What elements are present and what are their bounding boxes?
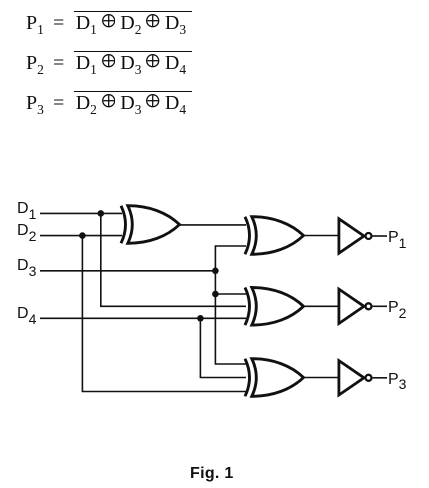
wire D3 branch to XOR U3 [215,293,246,295]
node D3 branch junction [212,291,219,298]
xor gate U2 ((D1^D2) xor D3) [245,217,304,255]
inverter U7 [339,361,372,395]
output label P3 [388,371,406,389]
equation P3 [26,91,192,115]
node D4 branch junction [197,315,204,322]
wire D3 riser bus [215,246,246,364]
input label D4 [17,305,36,323]
node D1 branch junction [98,210,105,217]
inverter U6 [339,289,372,323]
input label D2 [17,222,36,240]
wire XOR U4 output to inverter U7 [302,377,339,379]
wire D1 input [40,212,122,214]
wire D2 input [40,235,122,237]
caption Fig. 1 [190,465,234,483]
equation P1 [26,11,192,35]
wire D1 branch to XOR U3 [101,213,246,306]
wire D3 input [40,270,215,272]
xor gate U3 (D1 xor D3 xor D4) [245,288,304,326]
wire D4 input [40,317,246,319]
wire inverter U5 output to P1 [373,235,387,237]
node D2 branch junction [79,232,86,239]
wire D4 branch to XOR U4 [200,318,246,377]
wire D2 branch to XOR U4 [82,236,246,392]
input label D3 [17,257,36,275]
wire inverter U7 output to P3 [373,377,387,379]
output label P2 [388,299,406,317]
wire XOR U3 output to inverter U6 [302,305,339,307]
wire XOR U2 output to inverter U5 [302,235,339,237]
xor gate U1 (D1 xor D2) [121,206,180,244]
inverter U5 [339,219,372,253]
wire XOR U1 output to XOR U2 [180,224,246,226]
xor gate U4 (D2 xor D3 xor D4) [245,359,304,397]
equation P2 [26,51,192,75]
node D3 junction [212,268,219,275]
input label D1 [17,200,36,218]
wire inverter U6 output to P2 [373,305,387,307]
output label P1 [388,229,406,247]
